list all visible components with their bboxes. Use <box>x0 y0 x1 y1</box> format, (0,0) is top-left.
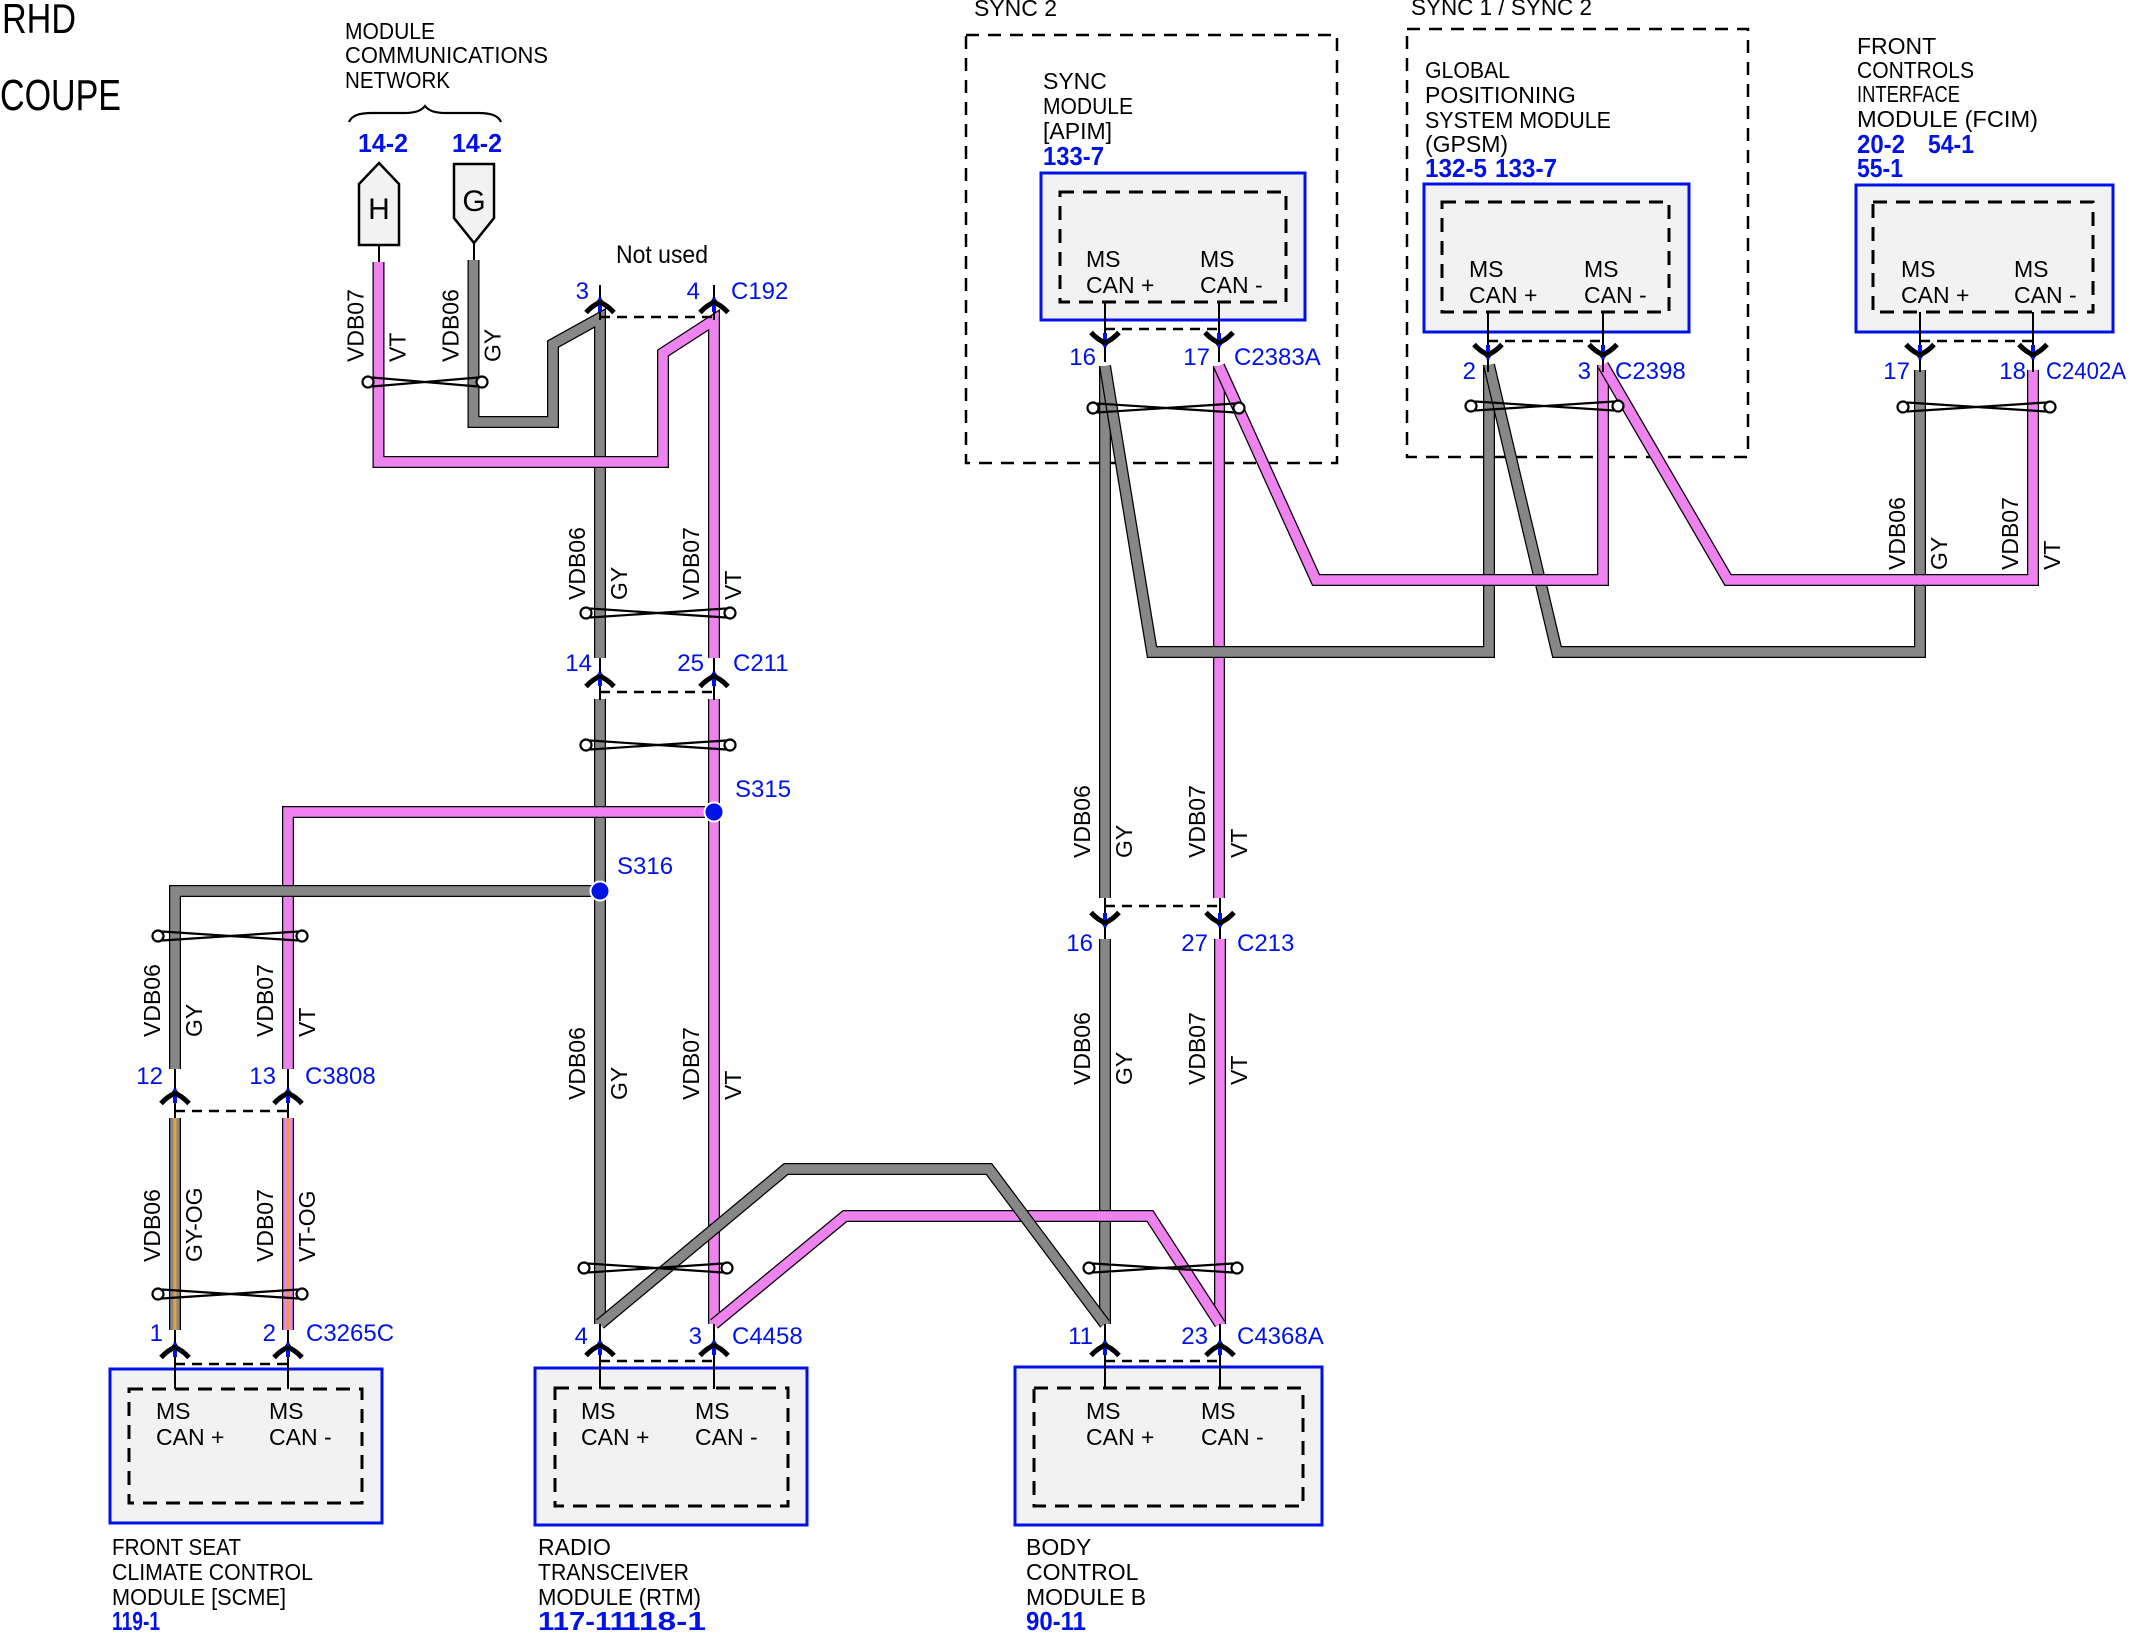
svg-text:CAN +: CAN + <box>1469 282 1537 308</box>
pin 3 arrow C192 <box>586 293 614 316</box>
module box BCM B <box>1015 1367 1322 1525</box>
svg-text:3: 3 <box>576 278 589 305</box>
svg-text:C4458: C4458 <box>732 1323 803 1350</box>
pin 17 arrow C2402A <box>1906 341 1934 364</box>
wire VDB07 VT C213 pin27 to BCM pin23 <box>1214 939 1226 1324</box>
wire VDB07 VT-OG C3808 to SCME pin2 <box>282 1118 294 1330</box>
wire VDB07 VT APIM pin17 to C213 pin27 <box>1213 366 1225 898</box>
svg-text:TRANSCEIVER: TRANSCEIVER <box>538 1559 689 1585</box>
lead C211 pin14 <box>599 658 601 700</box>
svg-text:CAN +: CAN + <box>1086 1424 1154 1450</box>
svg-text:117-11: 117-11 <box>538 1606 626 1632</box>
svg-text:FRONT: FRONT <box>1857 33 1936 59</box>
lead C213 pin16 <box>1104 898 1106 939</box>
svg-text:MODULE: MODULE <box>1043 93 1133 119</box>
svg-text:VDB06: VDB06 <box>564 527 590 600</box>
connector H (module communications network) <box>359 163 399 245</box>
lead C3808 pin12 <box>174 1069 176 1118</box>
svg-text:13: 13 <box>249 1063 276 1090</box>
svg-text:RHD: RHD <box>2 0 76 42</box>
svg-text:GY: GY <box>606 1067 632 1100</box>
svg-text:14-2: 14-2 <box>452 128 502 158</box>
wire VDB07 VT S315 branch to C3808 pin13 <box>288 812 714 1069</box>
pin 4 arrow C192 <box>700 293 728 316</box>
svg-text:VDB07: VDB07 <box>678 1027 704 1100</box>
lead FCIM pin18 <box>2032 312 2034 372</box>
wire VDB06 GY-OG C3808 to SCME pin1 <box>169 1118 181 1330</box>
svg-text:VT: VT <box>294 1008 320 1037</box>
svg-text:MS: MS <box>1086 246 1121 272</box>
svg-text:27: 27 <box>1181 930 1208 957</box>
page refs 132-5 133-7 <box>1425 153 1557 183</box>
svg-text:BODY: BODY <box>1026 1534 1091 1560</box>
connector C3265C dashed <box>175 1363 288 1366</box>
svg-text:GY: GY <box>1111 825 1137 858</box>
svg-text:VT: VT <box>2039 541 2065 570</box>
svg-text:VDB06: VDB06 <box>438 289 464 362</box>
svg-text:GLOBAL: GLOBAL <box>1425 57 1510 83</box>
svg-text:119-1: 119-1 <box>112 1606 160 1632</box>
svg-text:CAN +: CAN + <box>581 1424 649 1450</box>
svg-text:17: 17 <box>1883 358 1910 385</box>
svg-text:CONTROL: CONTROL <box>1026 1559 1139 1585</box>
svg-text:CAN -: CAN - <box>695 1424 758 1450</box>
svg-text:CAN -: CAN - <box>1201 1424 1264 1450</box>
wire VDB06 GY C213 pin16 to BCM pin11 <box>1099 939 1111 1324</box>
svg-text:2: 2 <box>263 1320 276 1347</box>
svg-text:CAN +: CAN + <box>1901 282 1969 308</box>
module RTM label <box>538 1534 701 1610</box>
module SCME label <box>112 1534 313 1610</box>
svg-text:GY: GY <box>1111 1052 1137 1085</box>
splice S316 <box>591 882 610 901</box>
twisted pair T5 <box>153 1289 308 1300</box>
svg-text:90-11: 90-11 <box>1026 1606 1086 1632</box>
svg-text:MS: MS <box>695 1398 730 1424</box>
svg-text:CLIMATE CONTROL: CLIMATE CONTROL <box>112 1559 313 1585</box>
svg-text:NETWORK: NETWORK <box>345 67 451 93</box>
svg-text:RADIO: RADIO <box>538 1534 611 1560</box>
lead RTM pin3 <box>713 1324 715 1389</box>
svg-text:GY: GY <box>181 1004 207 1037</box>
svg-text:MS: MS <box>1200 246 1235 272</box>
connector C213 dashed <box>1105 905 1220 908</box>
lead GPSM pin3 <box>1602 312 1604 372</box>
svg-text:MS: MS <box>1469 256 1504 282</box>
svg-text:2: 2 <box>1463 358 1476 385</box>
svg-text:MS: MS <box>581 1398 616 1424</box>
pin 3 arrow C2398 <box>1589 341 1617 364</box>
svg-text:1: 1 <box>150 1320 163 1347</box>
lead C192 pin3 <box>599 285 601 320</box>
svg-text:23: 23 <box>1181 1323 1208 1350</box>
svg-text:55-1: 55-1 <box>1857 153 1903 183</box>
lead C211 pin25 <box>713 658 715 700</box>
svg-text:CONTROLS: CONTROLS <box>1857 57 1974 83</box>
pin 11 arrow C4368A <box>1091 1336 1119 1359</box>
svg-text:C2398: C2398 <box>1615 358 1686 385</box>
svg-text:VDB06: VDB06 <box>139 964 165 1037</box>
dashed group box SYNC 1 / SYNC 2 <box>1407 29 1748 457</box>
twisted pair T3 <box>581 740 736 751</box>
module APIM label <box>1043 68 1133 144</box>
svg-text:VT: VT <box>720 1071 746 1100</box>
lead APIM pin17 <box>1218 302 1220 362</box>
wire VDB07 VT GPSM pin3 to FCIM pin18 <box>1603 365 2033 580</box>
svg-text:VDB06: VDB06 <box>139 1189 165 1262</box>
svg-text:VDB07: VDB07 <box>252 1189 278 1262</box>
lead from G <box>473 243 475 264</box>
svg-text:MODULE: MODULE <box>345 18 435 44</box>
dashed group box SYNC 2 <box>966 35 1337 463</box>
svg-text:POSITIONING: POSITIONING <box>1425 82 1576 108</box>
twisted pair T6 <box>579 1263 733 1274</box>
wire VDB06 GY APIM pin16 to C213 pin16 <box>1099 366 1111 898</box>
svg-text:VDB06: VDB06 <box>1069 1012 1095 1085</box>
connector C3808 dashed <box>175 1110 288 1113</box>
lead GPSM pin2 <box>1487 312 1489 372</box>
svg-text:132-5: 132-5 <box>1425 153 1487 183</box>
svg-text:SYNC 2: SYNC 2 <box>974 0 1057 21</box>
svg-text:C2383A: C2383A <box>1234 344 1321 371</box>
svg-text:VDB06: VDB06 <box>1884 497 1910 570</box>
svg-text:MS: MS <box>1584 256 1619 282</box>
svg-text:GY-OG: GY-OG <box>181 1187 207 1262</box>
svg-text:133-7: 133-7 <box>1495 153 1557 183</box>
svg-text:VT: VT <box>385 333 411 362</box>
connector C211 dashed <box>600 691 714 694</box>
wire VDB07 VT from H to C192 pin 4 <box>379 262 715 658</box>
svg-text:11: 11 <box>1068 1323 1093 1350</box>
svg-text:S315: S315 <box>735 776 791 803</box>
brace <box>349 106 501 122</box>
svg-text:16: 16 <box>1066 930 1093 957</box>
module FCIM label <box>1857 33 2038 132</box>
svg-text:GY: GY <box>1926 537 1952 570</box>
lead C3808 pin13 <box>287 1069 289 1118</box>
module box FCIM <box>1856 185 2113 332</box>
wire VDB07 VT RTM pin3 to BCM pin23 bridge <box>714 1216 1220 1324</box>
svg-text:SYNC: SYNC <box>1043 68 1107 94</box>
lead C192 pin4 <box>713 285 715 320</box>
pin 14 arrow C211 <box>586 667 614 690</box>
wire VDB06 GY APIM pin16 to GPSM pin2 <box>1105 365 1489 652</box>
svg-text:COMMUNICATIONS: COMMUNICATIONS <box>345 42 548 68</box>
page refs 20-2 54-1 55-1 <box>1857 129 1974 183</box>
svg-text:C192: C192 <box>731 278 788 305</box>
pin 16 arrow C213 <box>1091 909 1119 932</box>
svg-text:MS: MS <box>1201 1398 1236 1424</box>
wire VDB06 GY S316 branch to C3808 pin12 <box>175 891 600 1069</box>
svg-text:54-1: 54-1 <box>1928 129 1974 159</box>
svg-text:GY: GY <box>606 567 632 600</box>
twisted pair T10 <box>1898 402 2056 413</box>
svg-text:MS: MS <box>1901 256 1936 282</box>
svg-text:3: 3 <box>1578 358 1591 385</box>
svg-text:G: G <box>462 185 485 218</box>
svg-text:12: 12 <box>136 1063 163 1090</box>
connector C4458 dashed <box>600 1360 714 1363</box>
svg-text:SYSTEM MODULE: SYSTEM MODULE <box>1425 107 1611 133</box>
lead SCME pin1 <box>174 1330 176 1389</box>
svg-text:CAN -: CAN - <box>1200 272 1263 298</box>
svg-text:VDB06: VDB06 <box>564 1027 590 1100</box>
lead FCIM pin17 <box>1919 312 1921 372</box>
lead C213 pin27 <box>1219 898 1221 939</box>
svg-text:25: 25 <box>677 650 704 677</box>
svg-text:C213: C213 <box>1237 930 1294 957</box>
lead BCM pin11 <box>1104 1324 1106 1389</box>
svg-text:MS: MS <box>269 1398 304 1424</box>
module GPSM label <box>1425 57 1611 157</box>
svg-text:VT: VT <box>1226 829 1252 858</box>
svg-text:INTERFACE: INTERFACE <box>1857 81 1960 107</box>
lead RTM pin4 <box>599 1324 601 1389</box>
svg-text:SYNC 1 / SYNC 2: SYNC 1 / SYNC 2 <box>1411 0 1592 20</box>
svg-text:VDB07: VDB07 <box>1184 1012 1210 1085</box>
wire VDB06 GY RTM pin4 to BCM pin11 bridge <box>600 1169 1105 1324</box>
connector C2402A dashed <box>1920 340 2033 343</box>
connector C192 dashed <box>600 316 714 319</box>
svg-text:C3265C: C3265C <box>306 1320 394 1347</box>
svg-text:VDB07: VDB07 <box>1997 497 2023 570</box>
pin 17 arrow C2383A <box>1205 329 1233 352</box>
module box SCME <box>110 1369 382 1523</box>
svg-text:3: 3 <box>689 1323 702 1350</box>
pin 16 arrow C2383A <box>1091 329 1119 352</box>
svg-text:MS: MS <box>156 1398 191 1424</box>
twisted pair T2 <box>581 608 736 619</box>
svg-text:FRONT SEAT: FRONT SEAT <box>112 1534 241 1560</box>
wire VDB07 VT C211 pin25 to RTM pin3 <box>708 699 720 1324</box>
svg-text:17: 17 <box>1183 344 1210 371</box>
svg-text:VT: VT <box>720 571 746 600</box>
pin 3 arrow C4458 <box>700 1336 728 1359</box>
svg-text:VDB07: VDB07 <box>1184 785 1210 858</box>
svg-text:CAN +: CAN + <box>1086 272 1154 298</box>
svg-text:CAN -: CAN - <box>2014 282 2077 308</box>
svg-text:MS: MS <box>1086 1398 1121 1424</box>
svg-text:CAN +: CAN + <box>156 1424 224 1450</box>
svg-text:VT: VT <box>1226 1056 1252 1085</box>
svg-text:133-7: 133-7 <box>1043 141 1104 171</box>
svg-text:VT-OG: VT-OG <box>294 1190 320 1262</box>
svg-text:VDB06: VDB06 <box>1069 785 1095 858</box>
svg-text:C211: C211 <box>733 650 789 677</box>
pin 2 arrow C3265C <box>274 1338 302 1361</box>
wire VDB07 VT APIM pin17 to GPSM pin3 <box>1219 365 1603 580</box>
wire VDB06 GY GPSM pin2 to FCIM pin17 <box>1489 365 1920 652</box>
svg-text:C4368A: C4368A <box>1237 1323 1324 1350</box>
twisted pair T4 <box>153 931 308 942</box>
svg-text:16: 16 <box>1069 344 1096 371</box>
twisted pair T9 <box>1466 401 1624 412</box>
svg-text:GY: GY <box>480 329 506 362</box>
pin 23 arrow C4368A <box>1206 1336 1234 1359</box>
lead APIM pin16 <box>1104 302 1106 362</box>
module communications network label <box>345 18 548 93</box>
svg-text:118-1: 118-1 <box>622 1606 706 1632</box>
svg-text:4: 4 <box>687 278 700 305</box>
svg-text:C2402A: C2402A <box>2046 358 2126 385</box>
lead from H <box>378 245 380 264</box>
connector G (module communications network) <box>454 164 494 243</box>
twisted pair T8 <box>1088 403 1245 414</box>
svg-text:H: H <box>368 193 390 226</box>
wire VDB06 GY from G to C192 pin 3 <box>474 260 601 658</box>
pin 18 arrow C2402A <box>2019 341 2047 364</box>
wire VDB06 GY C211 pin14 to RTM pin4 <box>594 699 606 1324</box>
twisted pair T1 <box>363 377 488 388</box>
svg-text:VDB07: VDB07 <box>252 964 278 1037</box>
pin 4 arrow C4458 <box>586 1336 614 1359</box>
lead BCM pin23 <box>1219 1324 1221 1389</box>
svg-text:CAN -: CAN - <box>269 1424 332 1450</box>
svg-text:14: 14 <box>565 650 592 677</box>
page refs 117-11 118-1 <box>538 1606 706 1636</box>
pin 1 arrow C3265C <box>161 1338 189 1361</box>
connector C2398 dashed <box>1488 340 1603 343</box>
svg-text:CAN -: CAN - <box>1584 282 1647 308</box>
module box SYNC MODULE APIM <box>1041 173 1305 320</box>
svg-text:14-2: 14-2 <box>358 128 408 158</box>
svg-text:18: 18 <box>1999 358 2026 385</box>
pin 25 arrow C211 <box>700 667 728 690</box>
module box RTM <box>535 1368 807 1525</box>
pin 27 arrow C213 <box>1206 909 1234 932</box>
svg-text:VDB07: VDB07 <box>678 527 704 600</box>
pin 2 arrow C2398 <box>1474 341 1502 364</box>
module box GPSM <box>1424 184 1689 332</box>
svg-text:4: 4 <box>575 1323 588 1350</box>
lead SCME pin2 <box>287 1330 289 1389</box>
pin 12 arrow C3808 <box>161 1084 189 1107</box>
module BCM label <box>1026 1534 1146 1610</box>
svg-text:VDB07: VDB07 <box>343 289 369 362</box>
splice S315 <box>705 803 724 822</box>
svg-text:COUPE: COUPE <box>0 71 121 120</box>
svg-text:MS: MS <box>2014 256 2049 282</box>
svg-text:C3808: C3808 <box>305 1063 376 1090</box>
connector C4368A dashed <box>1105 1360 1220 1363</box>
connector C2383A dashed <box>1105 328 1219 331</box>
svg-text:Not used: Not used <box>616 241 708 269</box>
svg-text:S316: S316 <box>617 853 673 880</box>
twisted pair T7 <box>1084 1263 1243 1274</box>
pin 13 arrow C3808 <box>274 1084 302 1107</box>
